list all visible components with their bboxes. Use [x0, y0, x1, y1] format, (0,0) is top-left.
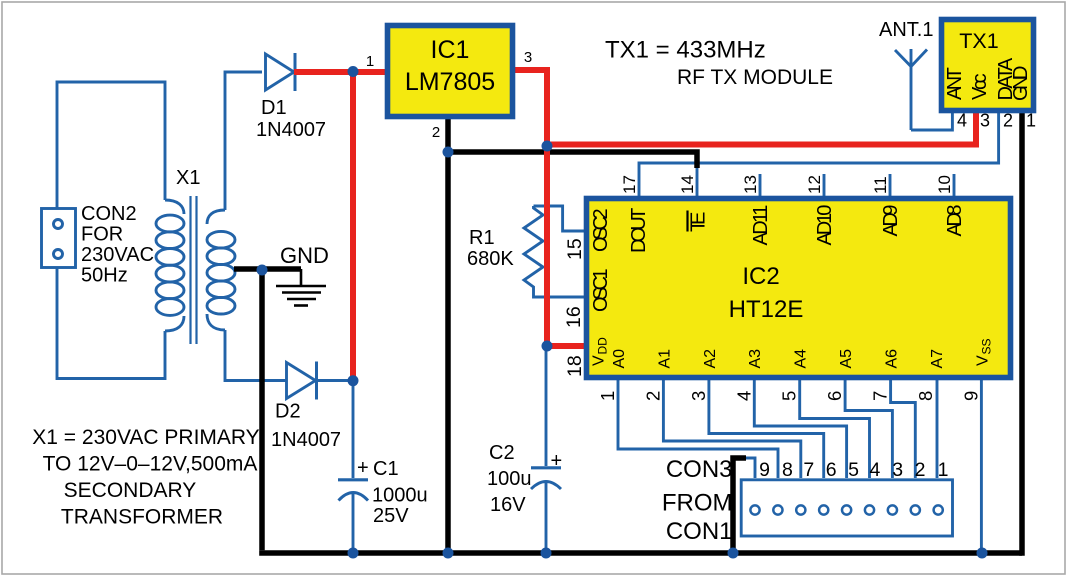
svg-text:4: 4	[733, 391, 754, 401]
svg-text:AD8: AD8	[944, 205, 966, 237]
svg-text:DD: DD	[596, 337, 610, 355]
svg-text:50Hz: 50Hz	[81, 265, 128, 287]
svg-text:8: 8	[782, 459, 793, 481]
svg-text:9: 9	[759, 459, 770, 481]
svg-text:RF TX MODULE: RF TX MODULE	[677, 66, 833, 89]
svg-text:+: +	[551, 450, 563, 472]
svg-text:14: 14	[678, 175, 697, 194]
svg-text:X1 = 230VAC PRIMARY: X1 = 230VAC PRIMARY	[32, 426, 259, 449]
svg-text:GND: GND	[1010, 66, 1032, 102]
svg-text:7: 7	[870, 391, 891, 401]
svg-text:1000u: 1000u	[372, 485, 428, 507]
svg-text:17: 17	[620, 175, 639, 194]
svg-text:18: 18	[564, 355, 586, 377]
svg-text:HT12E: HT12E	[729, 296, 804, 323]
svg-text:4: 4	[869, 459, 880, 481]
svg-text:1: 1	[366, 53, 374, 70]
svg-text:IC1: IC1	[431, 36, 470, 64]
svg-text:A6: A6	[883, 349, 900, 369]
svg-text:D2: D2	[275, 401, 301, 423]
svg-text:+: +	[357, 457, 369, 479]
svg-text:TE: TE	[688, 212, 710, 232]
svg-text:8: 8	[915, 391, 936, 401]
svg-text:CON2: CON2	[81, 203, 137, 225]
svg-text:13: 13	[741, 175, 760, 194]
svg-text:6: 6	[824, 391, 845, 401]
svg-text:SS: SS	[979, 338, 993, 354]
svg-text:AD9: AD9	[880, 205, 902, 237]
svg-text:5: 5	[848, 459, 859, 481]
svg-text:Vcc: Vcc	[969, 73, 991, 100]
svg-text:2: 2	[432, 124, 440, 141]
svg-text:3: 3	[892, 459, 903, 481]
svg-text:GND: GND	[280, 243, 329, 268]
svg-text:9: 9	[960, 391, 981, 401]
svg-text:ANT: ANT	[944, 67, 966, 100]
svg-text:5: 5	[779, 391, 800, 401]
svg-text:2: 2	[1003, 111, 1013, 131]
svg-text:D1: D1	[261, 97, 287, 119]
svg-text:V: V	[974, 355, 991, 366]
svg-text:AD10: AD10	[814, 205, 836, 246]
svg-text:A0: A0	[611, 349, 628, 369]
svg-text:LM7805: LM7805	[405, 68, 495, 96]
svg-text:A1: A1	[656, 349, 673, 369]
svg-text:680K: 680K	[467, 248, 514, 270]
svg-text:AD11: AD11	[750, 205, 772, 246]
svg-text:V: V	[590, 355, 607, 366]
svg-text:15: 15	[564, 238, 586, 260]
svg-text:CON3: CON3	[666, 456, 733, 483]
svg-text:1: 1	[938, 459, 949, 481]
svg-text:4: 4	[957, 111, 967, 131]
svg-text:1N4007: 1N4007	[271, 429, 341, 451]
svg-text:2: 2	[915, 459, 926, 481]
svg-text:3: 3	[688, 391, 709, 401]
svg-text:25V: 25V	[373, 505, 409, 527]
svg-text:TX1 = 433MHz: TX1 = 433MHz	[605, 37, 766, 64]
svg-text:3: 3	[524, 49, 532, 66]
svg-text:10: 10	[935, 175, 954, 194]
svg-text:1N4007: 1N4007	[256, 119, 326, 141]
svg-text:16: 16	[563, 306, 585, 328]
svg-text:3: 3	[980, 111, 990, 131]
svg-text:6: 6	[826, 459, 837, 481]
svg-text:ANT.1: ANT.1	[879, 19, 933, 41]
svg-text:A7: A7	[929, 349, 946, 369]
svg-text:1: 1	[597, 391, 618, 401]
svg-text:DOUT: DOUT	[628, 208, 650, 253]
svg-text:16V: 16V	[490, 494, 526, 516]
svg-text:TX1: TX1	[959, 29, 998, 53]
svg-text:C2: C2	[489, 442, 515, 464]
svg-text:C1: C1	[373, 458, 399, 480]
svg-text:FOR: FOR	[81, 224, 123, 246]
svg-text:12: 12	[805, 175, 824, 194]
svg-text:OSC1: OSC1	[590, 268, 612, 312]
svg-text:CON1: CON1	[666, 518, 733, 545]
svg-text:R1: R1	[469, 227, 495, 249]
svg-text:SECONDARY: SECONDARY	[64, 479, 197, 502]
svg-text:230VAC: 230VAC	[81, 244, 154, 266]
svg-text:A5: A5	[838, 349, 855, 369]
svg-text:A4: A4	[793, 349, 810, 369]
svg-text:X1: X1	[176, 167, 200, 189]
svg-text:100u: 100u	[487, 468, 532, 490]
svg-text:TO 12V–0–12V,500mA: TO 12V–0–12V,500mA	[43, 453, 258, 476]
svg-text:11: 11	[871, 176, 890, 194]
svg-text:A2: A2	[702, 349, 719, 369]
svg-text:FROM: FROM	[662, 490, 733, 517]
svg-text:OSC2: OSC2	[590, 208, 612, 252]
svg-text:TRANSFORMER: TRANSFORMER	[61, 506, 223, 529]
svg-text:2: 2	[642, 391, 663, 401]
svg-text:1: 1	[1026, 111, 1036, 131]
svg-text:A3: A3	[747, 349, 764, 369]
svg-text:7: 7	[803, 459, 814, 481]
svg-text:IC2: IC2	[742, 263, 779, 290]
